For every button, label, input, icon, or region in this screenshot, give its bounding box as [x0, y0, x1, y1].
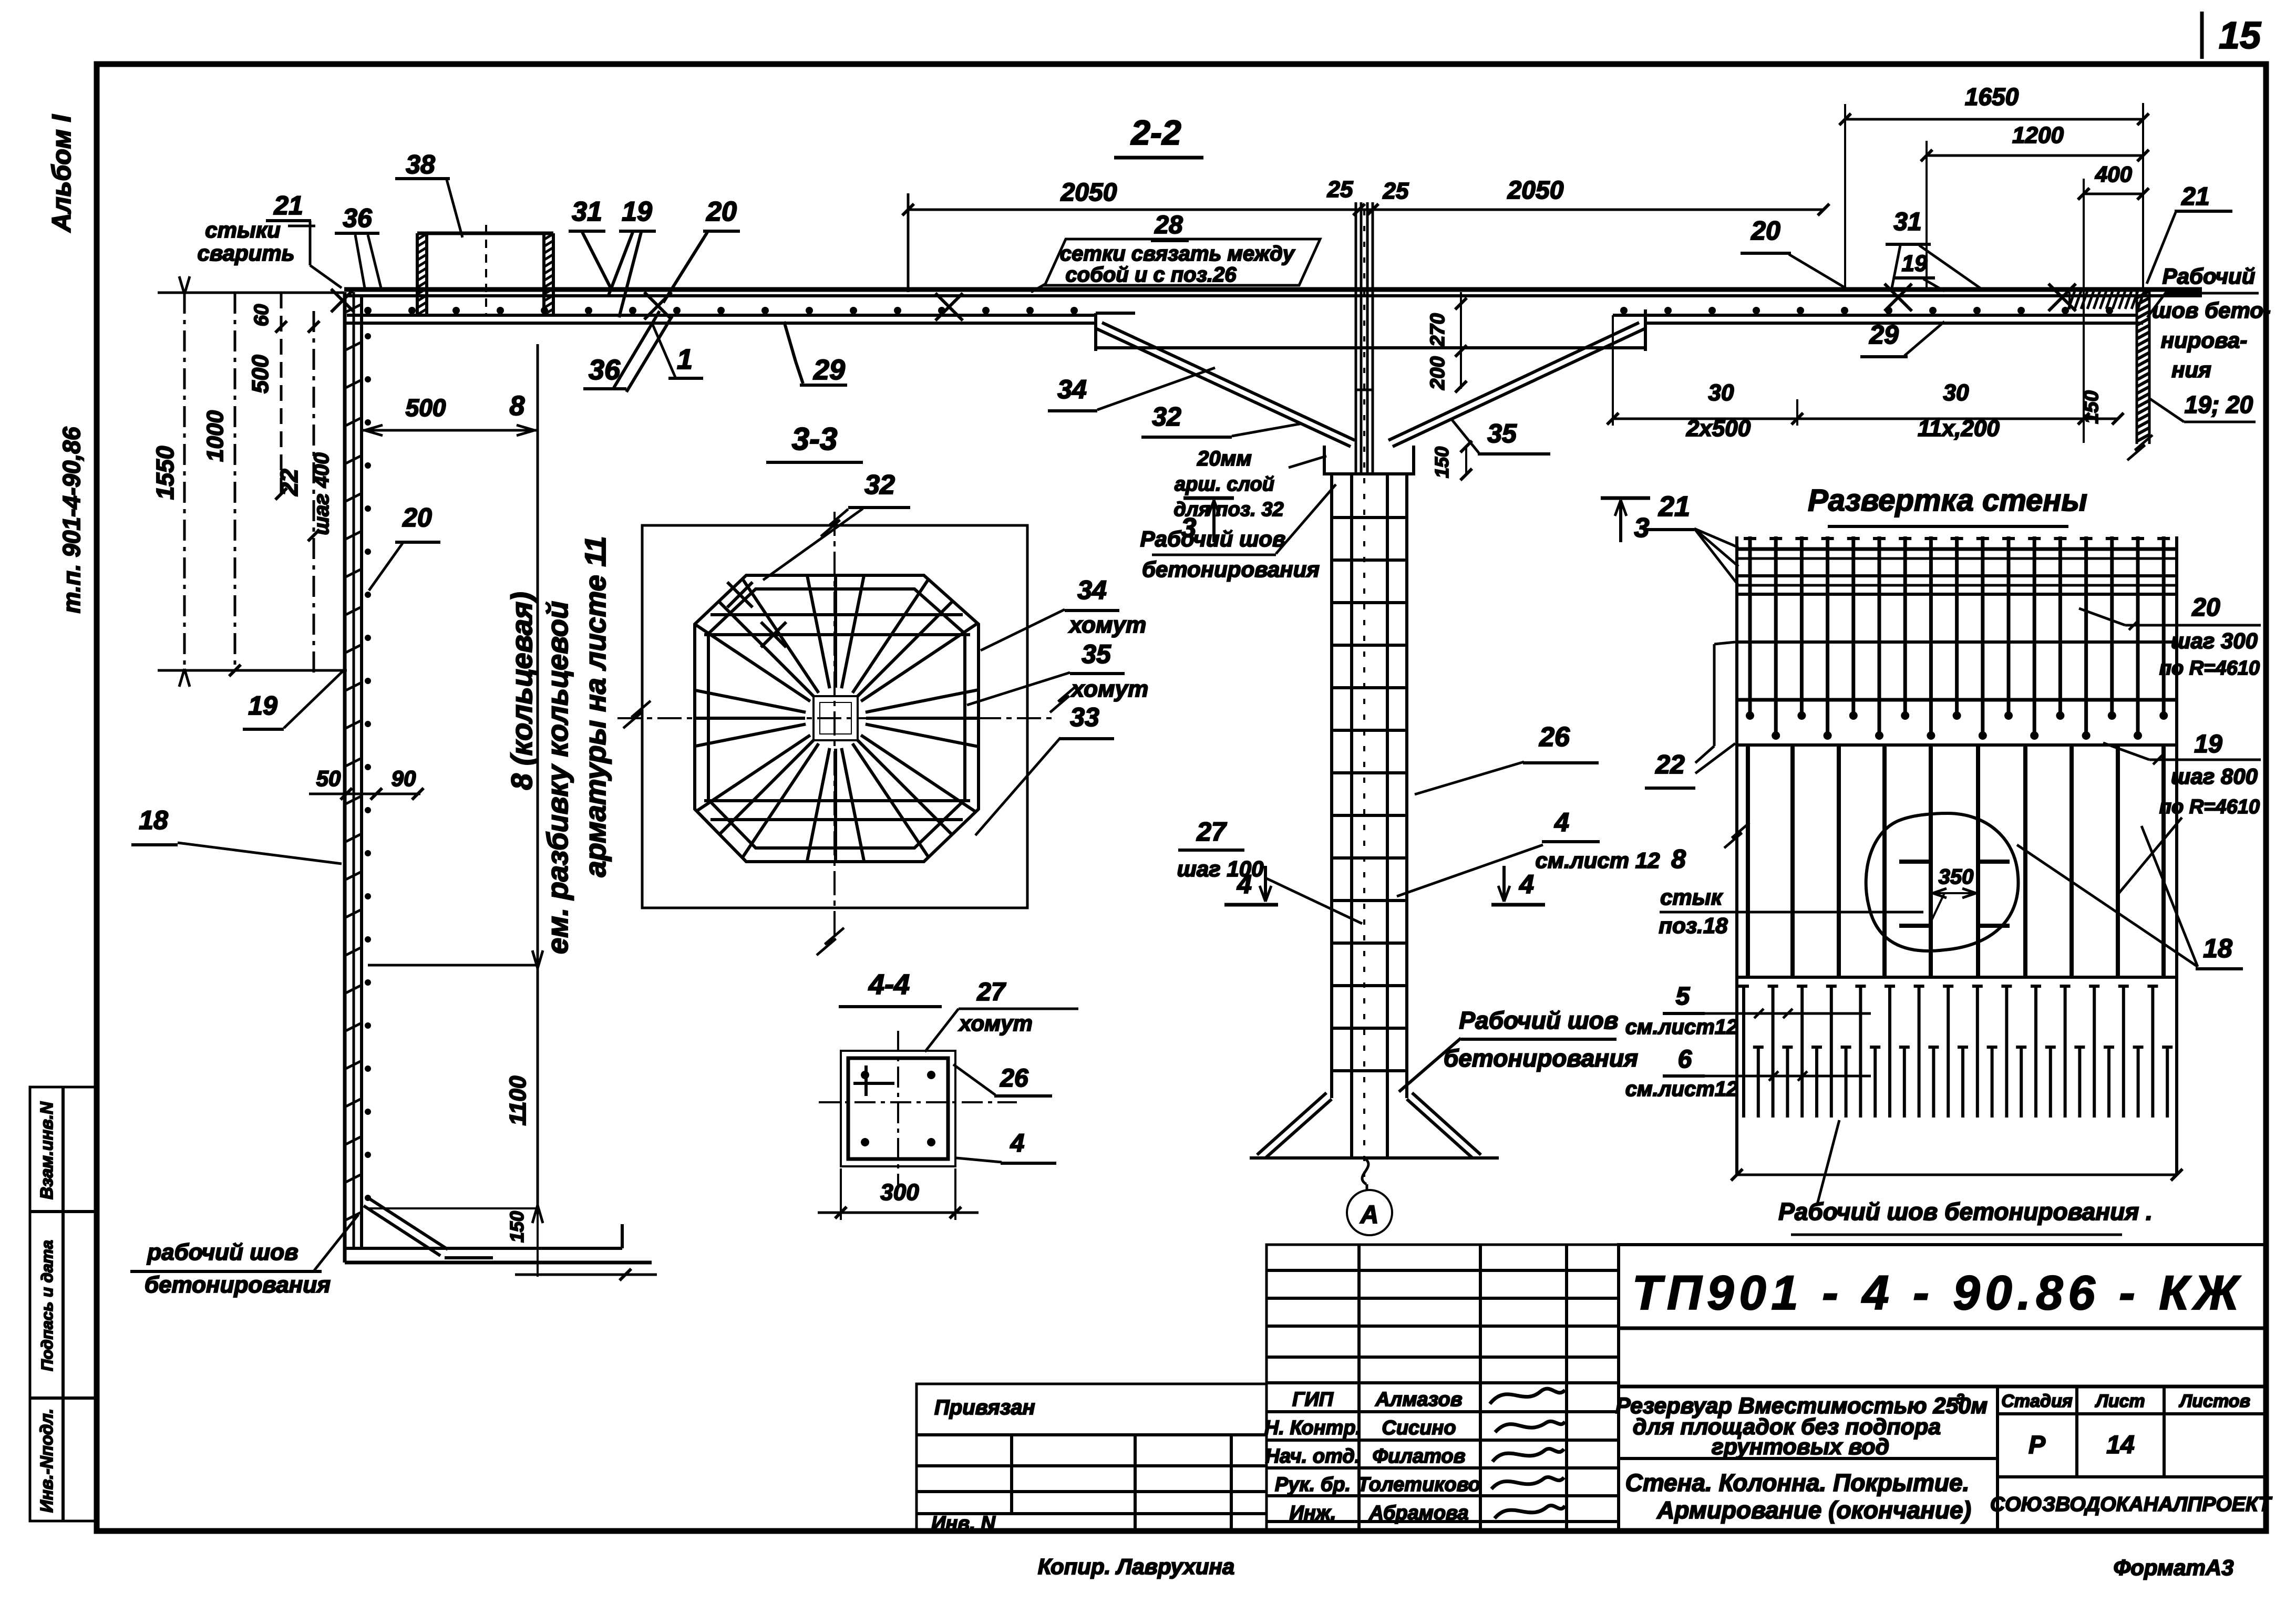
svg-text:19: 19	[622, 196, 652, 227]
svg-text:Р: Р	[2029, 1431, 2046, 1459]
svg-text:Толетиково: Толетиково	[1357, 1474, 1480, 1496]
tick line y1837	[368, 964, 538, 967]
slab second line	[344, 294, 2202, 297]
svg-text:31: 31	[1893, 208, 1921, 236]
3-3 inner octagon	[708, 589, 965, 848]
svg-text:Инв. N: Инв. N	[931, 1513, 996, 1535]
svg-text:Подпась и дата: Подпась и дата	[38, 1240, 56, 1371]
svg-text:20: 20	[1751, 216, 1780, 245]
svg-text:шаг 300: шаг 300	[2171, 628, 2258, 653]
right wall hatched	[2136, 289, 2138, 444]
svg-text:Развертка стены: Развертка стены	[1808, 483, 2087, 518]
3-3 X marks	[727, 582, 753, 607]
corner haunch bars	[364, 1206, 440, 1256]
svg-text:25: 25	[1327, 177, 1353, 202]
dim 1200	[1927, 154, 2143, 157]
svg-text:19; 20: 19; 20	[2185, 391, 2253, 418]
svg-text:27: 27	[1196, 817, 1227, 846]
3-3 center square	[814, 696, 858, 740]
svg-text:31: 31	[572, 196, 602, 227]
dim 1650	[1845, 118, 2143, 121]
wall-slab corner X	[331, 289, 354, 312]
svg-text:34: 34	[1057, 375, 1087, 404]
4-4 centerlines	[897, 1031, 899, 1188]
razv grid right edge	[2175, 536, 2178, 1175]
section marker 3 right	[1601, 496, 1650, 500]
svg-text:32: 32	[1152, 402, 1181, 431]
column axis centerline	[1363, 210, 1365, 1182]
slab top line	[344, 287, 2202, 292]
svg-text:270: 270	[1427, 313, 1449, 347]
svg-text:ГИП: ГИП	[1292, 1389, 1334, 1411]
left wall outer line	[343, 292, 347, 1263]
svg-text:грунтовых вод: грунтовых вод	[1712, 1434, 1889, 1460]
svg-text:38: 38	[406, 150, 435, 179]
svg-text:33: 33	[1070, 702, 1099, 732]
vertical chain line x1023	[537, 344, 539, 1208]
svg-text:3: 3	[1956, 1391, 1964, 1407]
4-4 hook top-left	[853, 1082, 894, 1085]
svg-text:Рук. бр.: Рук. бр.	[1275, 1474, 1351, 1496]
svg-text:8: 8	[510, 391, 525, 421]
capital end hooks	[1094, 313, 1097, 351]
svg-text:2050: 2050	[1061, 179, 1117, 206]
svg-text:Рабочий: Рабочий	[2163, 264, 2256, 288]
svg-text:3-3: 3-3	[792, 421, 838, 457]
splice dim 350	[1931, 892, 1978, 894]
svg-text:200: 200	[1427, 356, 1449, 390]
svg-text:28: 28	[1154, 211, 1183, 239]
splice ticks	[1899, 860, 1930, 864]
svg-text:20: 20	[402, 503, 432, 532]
column inner rebar	[1350, 475, 1353, 1158]
svg-text:2-2: 2-2	[1130, 113, 1181, 152]
svg-text:Листов: Листов	[2178, 1391, 2250, 1411]
dim 1000 vertical	[234, 293, 236, 670]
svg-text:50: 50	[316, 766, 341, 791]
svg-text:бетонирования: бетонирования	[145, 1272, 331, 1298]
razv horizontal wires	[1737, 547, 2177, 551]
svg-text:8 (кольцевая): 8 (кольцевая)	[505, 592, 538, 790]
slab mesh line right with dots	[1613, 314, 2137, 317]
svg-text:29: 29	[813, 354, 845, 386]
splice X marks on slab	[644, 292, 672, 319]
svg-text:36: 36	[343, 203, 373, 233]
svg-text:30: 30	[1943, 380, 1969, 406]
svg-text:20: 20	[706, 196, 737, 227]
svg-text:Армирование (окончание): Армирование (окончание)	[1656, 1496, 1971, 1524]
title block left table	[917, 1384, 1267, 1532]
svg-text:20мм: 20мм	[1197, 447, 1252, 470]
3-3 outer square	[642, 525, 1027, 908]
capital left diagonals	[1096, 328, 1351, 447]
svg-text:6: 6	[1678, 1046, 1692, 1073]
svg-text:26: 26	[1000, 1064, 1028, 1092]
svg-text:22: 22	[1655, 750, 1685, 779]
4-4 stirrup square	[848, 1058, 948, 1159]
svg-text:поз.18: поз.18	[1659, 913, 1728, 938]
dim 400	[2084, 193, 2143, 195]
svg-text:Взам.инв.N: Взам.инв.N	[37, 1101, 56, 1199]
svg-text:5: 5	[1676, 982, 1691, 1010]
dim row y399	[908, 209, 1824, 211]
svg-text:1650: 1650	[1965, 83, 2019, 110]
svg-text:4: 4	[1237, 870, 1252, 899]
svg-text:21: 21	[2181, 183, 2209, 211]
svg-text:по R=4610: по R=4610	[2159, 796, 2260, 818]
svg-text:32: 32	[864, 470, 895, 500]
svg-text:стыки: стыки	[205, 218, 281, 242]
svg-text:11x,200: 11x,200	[1918, 416, 2000, 441]
svg-text:90: 90	[392, 766, 416, 791]
node A leader	[1366, 1184, 1368, 1191]
capital apex block	[1323, 446, 1326, 475]
slab mesh line left with dots	[347, 314, 1096, 317]
svg-text:19: 19	[248, 691, 277, 720]
svg-text:рабочий шов: рабочий шов	[147, 1239, 298, 1265]
3-3 radial bars	[866, 724, 979, 747]
svg-text:Лист: Лист	[2094, 1391, 2145, 1411]
svg-text:27: 27	[976, 978, 1006, 1006]
svg-text:22: 22	[275, 469, 303, 496]
4-4 outer square	[841, 1051, 955, 1166]
razv upper bars	[1748, 536, 1752, 716]
svg-text:шаг 400: шаг 400	[310, 452, 333, 535]
svg-text:25: 25	[1383, 178, 1409, 204]
svg-text:Привязан: Привязан	[934, 1396, 1035, 1419]
razv bottom dim	[1737, 1174, 2177, 1176]
razv splice blob	[1866, 813, 2019, 951]
capital bottom chord	[1096, 346, 1645, 349]
section marker 3 left	[1183, 496, 1234, 500]
svg-text:18: 18	[139, 805, 168, 835]
column stirrup rungs	[1332, 516, 1407, 519]
capital right diagonals	[1393, 328, 1645, 447]
svg-text:1200: 1200	[2012, 122, 2064, 148]
svg-text:Инж.: Инж.	[1290, 1502, 1336, 1524]
svg-text:150: 150	[2081, 390, 2103, 423]
wall bottom slab	[345, 1247, 622, 1250]
node A circle	[1347, 1190, 1392, 1235]
wall rebar dots	[365, 333, 371, 339]
razv middle bars	[1746, 745, 1750, 977]
4-4 corner bars	[861, 1071, 869, 1079]
3-3 horizontal centerline	[617, 717, 1056, 719]
svg-text:Н. Контр.: Н. Контр.	[1264, 1417, 1361, 1439]
svg-text:400: 400	[2095, 162, 2132, 187]
column outline	[1330, 474, 1333, 1098]
razv heavy line bottom of middle	[1737, 976, 2177, 979]
svg-text:ТП901 - 4 - 90.86 - КЖ: ТП901 - 4 - 90.86 - КЖ	[1632, 1266, 2244, 1320]
ext lines right dims	[1844, 104, 1846, 288]
dim 500 horizontal	[362, 429, 538, 432]
wall inner hatch	[346, 305, 361, 312]
bottom right dim line	[1613, 418, 2118, 420]
svg-text:Алмазов: Алмазов	[1375, 1389, 1462, 1411]
svg-text:Филатов: Филатов	[1372, 1445, 1465, 1467]
svg-text:500: 500	[248, 355, 273, 394]
svg-text:2x500: 2x500	[1686, 416, 1751, 441]
svg-text:3: 3	[1181, 513, 1197, 543]
dim 300 of 4-4	[840, 1168, 842, 1220]
curb block pos 38	[416, 233, 419, 315]
svg-text:30: 30	[1708, 380, 1734, 406]
svg-text:15: 15	[2219, 15, 2261, 57]
3-3 vertical centerline	[833, 512, 836, 935]
sheet number 15 tick	[2200, 12, 2204, 59]
3-3 outer octagon	[695, 575, 979, 862]
title block right box	[1619, 1245, 2266, 1532]
svg-text:500: 500	[406, 394, 446, 421]
svg-text:ния: ния	[2171, 357, 2211, 382]
svg-text:ем. разбивку кольцевой: ем. разбивку кольцевой	[541, 601, 574, 954]
svg-text:арш. слой: арш. слой	[1175, 473, 1274, 495]
3-3 stirrup chords upper	[711, 613, 963, 616]
svg-text:21: 21	[273, 191, 303, 220]
svg-text:см.лист12: см.лист12	[1625, 1078, 1738, 1101]
svg-text:1: 1	[677, 344, 693, 375]
svg-text:4: 4	[1010, 1130, 1025, 1157]
svg-text:Нач. отд.: Нач. отд.	[1265, 1445, 1361, 1467]
svg-text:стык: стык	[1660, 885, 1723, 909]
column base flare	[1265, 1099, 1332, 1158]
svg-text:26: 26	[1539, 722, 1570, 752]
svg-text:Альбом I: Альбом I	[47, 114, 76, 233]
svg-text:19: 19	[1902, 251, 1928, 276]
svg-text:Рабочий шов бетонирования .: Рабочий шов бетонирования .	[1778, 1198, 2153, 1225]
slab end hatch	[2068, 291, 2075, 309]
svg-text:шаг 800: шаг 800	[2171, 764, 2258, 789]
dim 1550 vertical	[183, 293, 186, 670]
svg-text:Инв.-Nподл.: Инв.-Nподл.	[37, 1409, 56, 1513]
svg-text:по R=4610: по R=4610	[2159, 657, 2260, 679]
svg-text:35: 35	[1082, 639, 1111, 669]
svg-text:Стадия: Стадия	[2001, 1391, 2073, 1411]
svg-text:36: 36	[589, 354, 621, 386]
svg-text:14: 14	[2106, 1431, 2134, 1459]
svg-text:А: А	[1360, 1201, 1379, 1229]
column rebar above slab	[1355, 202, 1357, 475]
left wall inner lines	[353, 292, 355, 1249]
base ground line	[1250, 1156, 1499, 1160]
svg-text:20: 20	[2191, 594, 2220, 622]
svg-text:Рабочий шов: Рабочий шов	[1459, 1007, 1618, 1034]
svg-text:350: 350	[1939, 865, 1974, 888]
svg-text:Стена. Колонна. Покрытие.: Стена. Колонна. Покрытие.	[1625, 1469, 1970, 1496]
dim 150 bottom	[368, 1207, 538, 1209]
svg-text:шов бето-: шов бето-	[2152, 298, 2271, 323]
svg-text:4: 4	[1519, 870, 1534, 899]
svg-text:21: 21	[1658, 491, 1690, 522]
svg-text:1000: 1000	[202, 410, 228, 462]
svg-text:бетонирования: бетонирования	[1142, 557, 1320, 582]
svg-text:35: 35	[1487, 419, 1517, 448]
slab bottom line right	[1645, 322, 2143, 325]
svg-text:собой и с поз.26: собой и с поз.26	[1065, 263, 1237, 286]
svg-text:нирова-: нирова-	[2161, 328, 2248, 353]
svg-text:т.п. 901-4-90,86: т.п. 901-4-90,86	[58, 427, 85, 613]
svg-text:Абрамова: Абрамова	[1368, 1502, 1468, 1524]
svg-text:29: 29	[1869, 320, 1899, 349]
svg-text:150: 150	[1431, 447, 1453, 478]
svg-text:см.лист 12: см.лист 12	[1536, 848, 1660, 873]
dim 22 shag 400	[313, 311, 315, 672]
dim 60-500 vertical	[280, 293, 283, 494]
margin table	[30, 1087, 98, 1521]
svg-text:сетки связать между: сетки связать между	[1060, 242, 1295, 265]
svg-text:Копир. Лаврухина: Копир. Лаврухина	[1038, 1554, 1234, 1579]
svg-text:ФорматА3: ФорматА3	[2113, 1555, 2233, 1580]
svg-text:СОЮЗВОДОКАНАЛПРОЕКТ: СОЮЗВОДОКАНАЛПРОЕКТ	[1990, 1493, 2272, 1516]
svg-text:4: 4	[1554, 808, 1569, 837]
svg-text:хомут: хомут	[1068, 612, 1146, 638]
signatures	[1490, 1389, 1565, 1404]
svg-text:см.лист12: см.лист12	[1625, 1016, 1738, 1039]
3-3 stirrup chords lower	[704, 799, 970, 802]
svg-text:хомут: хомут	[958, 1011, 1033, 1036]
slab bottom line left	[344, 322, 1096, 325]
svg-text:60: 60	[251, 304, 273, 326]
svg-text:300: 300	[880, 1180, 919, 1205]
razv grid left edge	[1735, 536, 1738, 1175]
svg-text:1100: 1100	[505, 1075, 531, 1125]
svg-text:150: 150	[506, 1211, 528, 1243]
curb centerline	[485, 225, 487, 315]
svg-text:1550: 1550	[151, 446, 179, 500]
svg-text:34: 34	[1077, 575, 1107, 605]
svg-text:19: 19	[2194, 730, 2222, 758]
svg-text:бетонирования: бетонирования	[1444, 1044, 1638, 1072]
svg-text:4-4: 4-4	[868, 969, 910, 1000]
dim 200 270 rotated	[1460, 292, 1462, 389]
base break squiggle	[1362, 1158, 1368, 1184]
svg-text:18: 18	[2203, 934, 2232, 963]
svg-text:2050: 2050	[1507, 177, 1564, 204]
svg-text:8: 8	[1671, 844, 1686, 874]
svg-text:хомут: хомут	[1070, 676, 1148, 702]
svg-text:сварить: сварить	[197, 241, 294, 265]
svg-text:Сисино: Сисино	[1382, 1417, 1456, 1439]
svg-text:арматуры на листе 11: арматуры на листе 11	[579, 536, 612, 877]
razv dense bars	[1742, 985, 1745, 1118]
title block central table	[1267, 1245, 1619, 1532]
